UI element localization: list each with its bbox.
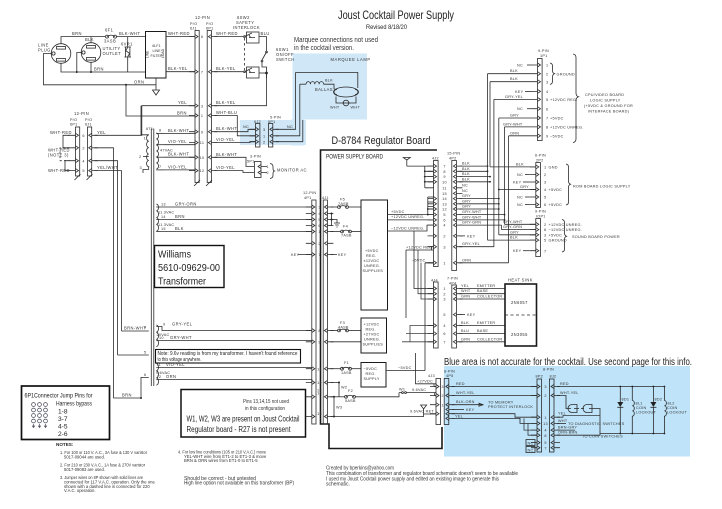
svg-text:5: 5	[318, 218, 320, 222]
svg-text:F3: F3	[340, 321, 345, 325]
primary winding left	[141, 106, 149, 173]
svg-text:2: 2	[544, 394, 546, 398]
9.6VAC RET with ground	[424, 409, 436, 414]
svg-text:HEAT SINK: HEAT SINK	[508, 278, 533, 283]
svg-text:BLU: BLU	[461, 329, 469, 333]
svg-text:8P2: 8P2	[536, 375, 544, 379]
svg-text:ORN: ORN	[510, 131, 519, 135]
svg-text:7: 7	[544, 249, 546, 253]
fuse 6F1	[106, 35, 117, 38]
svg-text:5-PIN: 5-PIN	[270, 116, 281, 120]
svg-text:BLK: BLK	[325, 79, 333, 83]
svg-text:in the cocktail version.: in the cocktail version.	[294, 45, 354, 52]
svg-text:WHT-RED: WHT-RED	[50, 130, 72, 135]
svg-text:TO MEMORY: TO MEMORY	[488, 401, 514, 405]
wire BLK-WHT to 5-pin	[214, 129, 255, 131]
svg-text:7: 7	[546, 117, 548, 121]
svg-text:15: 15	[161, 227, 166, 231]
secondary winding (20VAC)	[156, 325, 311, 347]
svg-text:GRY-ORN: GRY-ORN	[175, 202, 197, 207]
svg-text:3: 3	[544, 385, 546, 389]
svg-text:NC: NC	[517, 173, 523, 177]
svg-text:13: 13	[442, 202, 447, 206]
svg-text:GRY-WHT: GRY-WHT	[462, 210, 482, 214]
svg-text:SOUND BOARD POWER: SOUND BOARD POWER	[572, 235, 620, 239]
svg-text:4: 4	[82, 159, 84, 163]
svg-text:8: 8	[544, 228, 546, 232]
svg-text:GRY-GRN: GRY-GRN	[503, 225, 522, 229]
svg-text:KEY: KEY	[467, 313, 476, 317]
svg-text:LOGIC SUPPLY: LOGIC SUPPLY	[590, 98, 621, 102]
svg-text:3ASB: 3ASB	[104, 39, 116, 44]
svg-text:5ASB: 5ASB	[345, 399, 356, 403]
svg-text:F1: F1	[344, 361, 349, 365]
svg-text:KEY: KEY	[513, 181, 522, 185]
svg-text:VIO-YEL: VIO-YEL	[216, 137, 235, 142]
svg-text:BALLAST: BALLAST	[315, 87, 336, 92]
wire: outlet stem to top line	[90, 37, 92, 43]
svg-text:8D2: 8D2	[655, 398, 663, 402]
svg-text:BLK-WHT: BLK-WHT	[216, 126, 237, 131]
svg-text:LOAD: LOAD	[161, 48, 165, 58]
svg-text:MONITOR AC: MONITOR AC	[277, 168, 307, 173]
svg-text:OUTLET: OUTLET	[103, 51, 122, 56]
svg-text:W1: W1	[399, 388, 405, 392]
svg-text:I used my Joust Cocktail power: I used my Joust Cocktail power supply an…	[326, 476, 499, 482]
wire: fuse to filter	[117, 36, 146, 38]
svg-text:GRY: GRY	[520, 185, 529, 189]
svg-text:7ASB: 7ASB	[338, 202, 349, 206]
4P2 right-side wires and labels	[459, 165, 487, 167]
coin lockout verticals	[619, 387, 621, 434]
svg-text:BLK-YEL: BLK-YEL	[216, 66, 236, 71]
svg-text:W1, W2, W3 are present on Jous: W1, W2, W3 are present on Joust Cocktail	[187, 414, 300, 424]
pin 9 wire to +12 box	[330, 341, 361, 343]
svg-text:4: 4	[443, 324, 445, 328]
svg-text:BASE: BASE	[477, 289, 488, 293]
svg-text:+27VDC: +27VDC	[417, 379, 433, 383]
blue highlight: strip connecting marquee to 5-pin	[291, 120, 304, 146]
fuse F4 on pin 1 line	[330, 230, 361, 233]
svg-text:5017-09083 are used.: 5017-09083 are used.	[64, 467, 105, 472]
svg-text:NC: NC	[528, 448, 534, 452]
svg-text:GRY-YEL: GRY-YEL	[462, 242, 480, 246]
YEL wire	[557, 416, 600, 418]
svg-text:+12VDC UNREG.: +12VDC UNREG.	[550, 125, 584, 129]
svg-text:WHT: WHT	[330, 106, 340, 110]
svg-text:Pins 13,14,15 not used: Pins 13,14,15 not used	[243, 399, 289, 405]
fuse F3 on pin 8 line	[330, 329, 361, 332]
svg-text:3-7: 3-7	[58, 416, 68, 423]
svg-text:BLK: BLK	[175, 226, 184, 231]
svg-text:7: 7	[443, 165, 445, 169]
svg-text:VIO-YEL: VIO-YEL	[216, 165, 235, 170]
svg-text:Marquee connections not used: Marquee connections not used	[294, 37, 378, 44]
ground bundle for BLK pins	[407, 166, 434, 188]
svg-text:4: 4	[318, 212, 320, 216]
svg-text:KEY: KEY	[338, 253, 347, 257]
svg-text:12-PIN: 12-PIN	[195, 15, 210, 20]
svg-text:15: 15	[442, 192, 447, 196]
wire VIO-YEL to 5-pin	[214, 141, 255, 144]
wire across top of marquee box	[296, 73, 358, 89]
svg-text:GRY-WHT: GRY-WHT	[503, 122, 523, 126]
svg-text:VIO-YEL: VIO-YEL	[168, 139, 187, 144]
long wires to 4P1: GRY-ORN / BRN / BLK	[160, 206, 312, 208]
svg-text:W3: W3	[336, 406, 342, 410]
svg-text:BRN & ORN wires from ET1-0 to: BRN & ORN wires from ET1-0 to ET1-5	[184, 458, 258, 463]
wire from pin 2 down left bus	[95, 148, 114, 398]
svg-text:5: 5	[544, 196, 546, 200]
svg-text:5: 5	[443, 213, 445, 217]
svg-text:YEL: YEL	[97, 130, 106, 135]
svg-text:GRY-WHT: GRY-WHT	[170, 335, 192, 340]
svg-text:6: 6	[82, 134, 84, 138]
-5VDC output wire	[386, 370, 425, 372]
svg-text:5610-09629-00: 5610-09629-00	[158, 263, 220, 274]
svg-text:9-PIN: 9-PIN	[538, 49, 549, 53]
svg-text:−5VDC: −5VDC	[364, 367, 378, 371]
svg-text:TO COIN SWITCHES: TO COIN SWITCHES	[582, 434, 623, 438]
svg-text:15-PIN: 15-PIN	[447, 152, 460, 156]
svg-text:KEY: KEY	[513, 249, 522, 253]
svg-text:2: 2	[139, 155, 141, 159]
connector bar 6J1	[195, 31, 199, 183]
svg-text:GRY: GRY	[510, 114, 519, 118]
svg-text:GRY: GRY	[462, 194, 471, 198]
svg-text:15: 15	[317, 412, 322, 416]
svg-text:±12VDC: ±12VDC	[364, 259, 380, 263]
svg-text:GRY-YEL: GRY-YEL	[172, 322, 193, 327]
wires from 5-pin into marquee area	[276, 73, 296, 130]
secondary winding (9.6VAC)	[156, 364, 311, 386]
svg-text:2N6057: 2N6057	[511, 300, 528, 305]
W1 jumper and 9.6VAC wire	[399, 392, 436, 394]
svg-text:RED: RED	[456, 382, 465, 386]
blue highlight: 5-pin connector area	[240, 120, 306, 145]
svg-text:NC: NC	[243, 125, 249, 129]
wire WHT-BLU	[214, 116, 255, 136]
svg-text:6LF1: 6LF1	[152, 44, 160, 48]
connector bar 6P1	[207, 31, 211, 183]
svg-text:10: 10	[200, 156, 205, 160]
svg-text:8J2: 8J2	[550, 375, 557, 379]
svg-text:ORN-BRN: ORN-BRN	[558, 431, 577, 435]
svg-text:11: 11	[157, 363, 161, 367]
secondary winding right (47VAC)	[156, 133, 164, 170]
svg-text:(NOTE 3): (NOTE 3)	[48, 153, 69, 158]
jump pin grid icon	[32, 403, 48, 428]
svg-text:YEL: YEL	[461, 284, 469, 288]
svg-text:BLK: BLK	[462, 162, 470, 166]
svg-text:2-6: 2-6	[58, 431, 68, 438]
svg-text:P/O: P/O	[190, 22, 197, 26]
svg-text:GRY: GRY	[462, 199, 471, 203]
svg-text:2: 2	[267, 171, 269, 175]
svg-text:EMITTER: EMITTER	[477, 284, 495, 288]
svg-text:6: 6	[144, 373, 146, 377]
svg-text:V.A.C. operation.: V.A.C. operation.	[64, 488, 96, 493]
svg-text:11: 11	[317, 367, 321, 371]
svg-text:9: 9	[163, 323, 165, 327]
wire: filter out BLK-YEL	[166, 71, 195, 73]
svg-text:4J1: 4J1	[322, 196, 329, 200]
svg-text:WHT: WHT	[558, 419, 568, 423]
svg-text:11.3VAC: 11.3VAC	[158, 211, 174, 215]
svg-text:7: 7	[318, 253, 320, 257]
svg-text:3: 3	[318, 206, 320, 210]
wire YEL/WHT from pin 5 to left bus	[95, 171, 122, 331]
svg-text:8: 8	[443, 170, 445, 174]
svg-text:8-PIN: 8-PIN	[444, 370, 455, 374]
svg-text:11: 11	[442, 186, 446, 190]
svg-text:8: 8	[544, 434, 546, 438]
svg-text:12-PIN: 12-PIN	[303, 191, 316, 195]
svg-text:6F1: 6F1	[105, 28, 114, 33]
svg-text:EMITTER: EMITTER	[477, 321, 495, 325]
core	[151, 129, 154, 387]
svg-text:BASE: BASE	[477, 329, 488, 333]
svg-text:UNREG.: UNREG.	[364, 264, 380, 268]
GRY wire to 2P2 pin 4	[499, 189, 536, 191]
svg-text:COIN: COIN	[636, 406, 647, 410]
created by block	[326, 466, 518, 488]
svg-text:BRN: BRN	[72, 31, 82, 36]
svg-text:YEL: YEL	[558, 412, 566, 416]
svg-text:3: 3	[201, 104, 203, 108]
line filter 6LF1	[146, 32, 167, 79]
svg-text:BLK: BLK	[461, 321, 469, 325]
svg-text:6J1: 6J1	[85, 123, 92, 127]
svg-text:3: 3	[140, 166, 142, 170]
svg-text:14: 14	[161, 215, 166, 219]
svg-text:ROM BOARD LOGIC SUPPLY: ROM BOARD LOGIC SUPPLY	[573, 185, 631, 189]
svg-text:1: 1	[544, 416, 546, 420]
svg-text:BLK: BLK	[462, 177, 470, 181]
svg-text:P/O: P/O	[206, 22, 213, 26]
svg-text:BRN: BRN	[94, 67, 104, 72]
svg-text:KEY: KEY	[466, 408, 475, 412]
svg-text:YEL/WHT: YEL/WHT	[97, 165, 118, 170]
svg-text:SUPPLIES: SUPPLIES	[363, 269, 384, 273]
svg-text:RED: RED	[560, 382, 569, 386]
svg-text:3: 3	[443, 298, 445, 302]
svg-text:INTERFACE BOARD): INTERFACE BOARD)	[588, 109, 630, 113]
wire: WHT-RED to safety interlock	[214, 36, 243, 38]
blue highlight: marquee lamp area	[293, 54, 368, 120]
svg-text:LOCKOUT: LOCKOUT	[667, 411, 688, 415]
outputs of +5 box	[388, 214, 434, 216]
svg-text:9: 9	[201, 130, 203, 134]
svg-text:+12VDC: +12VDC	[364, 323, 380, 327]
svg-text:BLK: BLK	[85, 37, 94, 42]
svg-text:BLK: BLK	[510, 236, 518, 240]
svg-text:+5VDC: +5VDC	[549, 233, 563, 237]
svg-text:+5VDC: +5VDC	[391, 210, 405, 214]
secondary winding (11.3VAC pair)	[156, 204, 160, 232]
svg-text:5P1: 5P1	[247, 160, 255, 164]
svg-text:2: 2	[82, 146, 84, 150]
svg-text:NOTES:: NOTES:	[56, 442, 74, 447]
svg-text:6: 6	[544, 203, 546, 207]
svg-text:5: 5	[544, 239, 546, 243]
svg-text:8: 8	[318, 329, 320, 333]
svg-text:12-PIN: 12-PIN	[74, 111, 89, 116]
svg-text:BLK-WHT: BLK-WHT	[119, 31, 140, 36]
svg-text:1: 1	[546, 64, 548, 68]
svg-text:Harness bypass: Harness bypass	[56, 401, 93, 408]
line plug	[38, 43, 71, 64]
svg-text:6VR1: 6VR1	[121, 42, 133, 47]
svg-text:4J3: 4J3	[428, 374, 435, 378]
svg-text:9: 9	[443, 175, 445, 179]
svg-text:WHT-RED: WHT-RED	[216, 31, 238, 36]
svg-text:7: 7	[443, 340, 445, 344]
svg-text:REG.: REG.	[366, 372, 376, 376]
wire BLK-WHT to monitor connector	[214, 157, 254, 166]
svg-text:−12VDC UNREG.: −12VDC UNREG.	[391, 226, 425, 230]
wires transformer to main connector	[164, 132, 195, 134]
varistor 6VR1	[127, 37, 129, 47]
svg-text:5: 5	[144, 351, 146, 355]
svg-text:3: 3	[443, 245, 445, 249]
svg-text:5: 5	[546, 98, 548, 102]
svg-text:COLLECTOR: COLLECTOR	[477, 337, 502, 341]
svg-text:13: 13	[543, 422, 548, 426]
fuse F5 on pin 3 line	[330, 206, 361, 209]
starter loop	[336, 97, 356, 106]
svg-text:6: 6	[318, 224, 320, 228]
6P1 connector jump pins box	[22, 386, 110, 440]
svg-text:NC: NC	[528, 441, 534, 445]
svg-text:F4: F4	[343, 225, 348, 229]
svg-text:PROTECT INTERLOCK: PROTECT INTERLOCK	[488, 405, 533, 409]
svg-text:SUPPLIES: SUPPLIES	[363, 343, 384, 347]
svg-text:BLK: BLK	[462, 172, 470, 176]
svg-text:GRY-WHT: GRY-WHT	[503, 220, 523, 224]
svg-text:4J2: 4J2	[432, 157, 439, 161]
svg-text:+12VDC REG.: +12VDC REG.	[406, 245, 434, 249]
svg-text:BLK-ORN: BLK-ORN	[456, 400, 475, 404]
svg-text:WHT-BLU: WHT-BLU	[216, 110, 237, 115]
blue highlight: bottom-right coin door area	[444, 366, 690, 457]
svg-text:4: 4	[544, 429, 546, 433]
svg-text:WHT: WHT	[461, 289, 471, 293]
svg-text:+27VDC: +27VDC	[364, 333, 380, 337]
wires into board from 4J4	[414, 231, 434, 289]
svg-text:F2: F2	[348, 389, 353, 393]
svg-text:14: 14	[317, 391, 322, 395]
svg-text:4-5: 4-5	[58, 424, 68, 431]
svg-text:IOP1: IOP1	[536, 215, 546, 219]
svg-text:BLK: BLK	[516, 162, 524, 166]
svg-text:1: 1	[263, 134, 265, 138]
svg-text:NC: NC	[517, 203, 523, 207]
svg-text:BLU: BLU	[261, 31, 270, 36]
svg-text:4: 4	[544, 188, 546, 192]
svg-text:−12VDC UNREG.: −12VDC UNREG.	[549, 228, 583, 232]
svg-text:GRY: GRY	[462, 205, 471, 209]
svg-text:4P5: 4P5	[446, 374, 454, 378]
svg-text:10: 10	[159, 336, 164, 340]
svg-text:1: 1	[443, 287, 445, 291]
svg-text:PLUG: PLUG	[38, 48, 51, 53]
svg-text:6P1Connector Jump Pins for: 6P1Connector Jump Pins for	[25, 393, 94, 400]
svg-text:1ASB: 1ASB	[341, 371, 352, 375]
diodes	[617, 402, 623, 407]
svg-text:WHT-YEL: WHT-YEL	[456, 391, 475, 395]
wire YEL from pin 6 up to pin 3 of main connector	[95, 106, 195, 136]
svg-text:Regulator board - R27 is not: Regulator board - R27 is not present	[187, 424, 292, 434]
svg-text:KEY: KEY	[515, 90, 524, 94]
svg-text:9.6VAC RET: 9.6VAC RET	[410, 410, 434, 414]
svg-text:8L1: 8L1	[636, 402, 643, 406]
connections inside board to 4J2 lower pins	[428, 197, 434, 215]
svg-text:BRN: BRN	[122, 393, 132, 398]
+27VDC wire from +12 box down to 4J3	[416, 353, 437, 384]
svg-text:12: 12	[317, 381, 322, 385]
Note 9.6v box	[156, 350, 301, 364]
svg-text:8L2: 8L2	[668, 402, 675, 406]
svg-text:7: 7	[544, 446, 546, 450]
svg-text:1: 1	[267, 165, 269, 169]
heat sink wires	[459, 288, 505, 290]
svg-text:4: 4	[443, 224, 445, 228]
svg-text:BLK: BLK	[462, 167, 470, 171]
fuse F1 on pin 11 line	[330, 367, 361, 370]
supply box: -5VDC REG SUPPLY	[361, 363, 386, 388]
svg-text:to this voltage anywhere.: to this voltage anywhere.	[158, 357, 202, 363]
svg-text:8: 8	[159, 129, 161, 133]
svg-text:BRN: BRN	[175, 214, 185, 219]
svg-text:2P2: 2P2	[536, 159, 544, 163]
svg-text:5: 5	[82, 169, 84, 173]
svg-text:12: 12	[200, 169, 205, 173]
wire BLU from interlock	[259, 37, 267, 51]
svg-text:9-PIN: 9-PIN	[535, 210, 546, 214]
big brace CPU/VIDEO	[573, 54, 579, 143]
svg-text:ORN: ORN	[134, 79, 144, 84]
pins both sides	[189, 35, 217, 174]
primary tap 6 and BRN return	[114, 377, 149, 398]
svg-text:+5VDC: +5VDC	[549, 188, 563, 192]
brace SOUND BOARD	[562, 220, 567, 253]
svg-text:8: 8	[546, 126, 548, 130]
svg-text:Revised 8/18/20: Revised 8/18/20	[366, 24, 407, 31]
svg-text:4P2: 4P2	[449, 157, 457, 161]
svg-text:10: 10	[442, 180, 447, 184]
svg-text:WHT-RED: WHT-RED	[168, 31, 190, 36]
svg-text:YEL: YEL	[178, 100, 187, 105]
svg-text:LINE: LINE	[145, 50, 149, 58]
svg-text:7: 7	[159, 165, 161, 169]
svg-text:3: 3	[263, 128, 265, 132]
svg-text:MARQUEE LAMP: MARQUEE LAMP	[331, 57, 371, 62]
wire from switch down to BLK-YEL return	[214, 73, 266, 106]
svg-text:2: 2	[544, 173, 546, 177]
svg-text:Williams: Williams	[158, 250, 191, 261]
svg-text:12: 12	[157, 375, 162, 379]
svg-text:12: 12	[442, 208, 447, 212]
svg-text:KEY: KEY	[291, 253, 300, 257]
fuse F2 on pin 14 line	[330, 393, 399, 399]
svg-text:5017-09044 are used.: 5017-09044 are used.	[64, 454, 105, 459]
fluorescent lamp	[334, 87, 359, 97]
svg-text:ORN: ORN	[166, 374, 176, 379]
svg-text:3: 3	[441, 385, 443, 389]
svg-text:8D1: 8D1	[622, 398, 630, 402]
-5VDC long output	[425, 263, 434, 371]
